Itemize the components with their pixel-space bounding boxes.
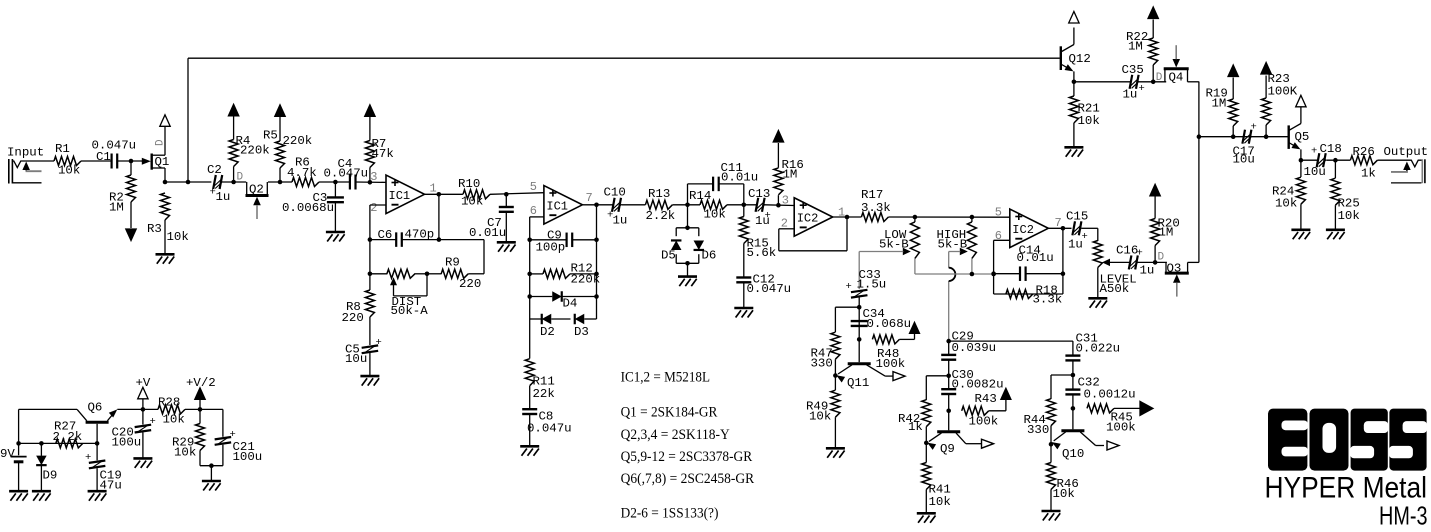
svg-text:0.01u: 0.01u <box>721 171 758 185</box>
svg-text:R13: R13 <box>648 187 670 201</box>
svg-text:D6: D6 <box>702 249 717 263</box>
svg-text:C13: C13 <box>748 187 770 201</box>
svg-text:R3: R3 <box>147 222 162 236</box>
svg-text:D: D <box>1158 252 1165 264</box>
svg-text:100k: 100k <box>1106 421 1136 435</box>
svg-text:0.0012u: 0.0012u <box>1084 388 1136 402</box>
svg-text:1: 1 <box>430 182 437 196</box>
svg-text:0.0082u: 0.0082u <box>952 378 1004 392</box>
svg-text:470p: 470p <box>405 228 435 242</box>
svg-text:+: + <box>846 281 852 293</box>
svg-text:R1: R1 <box>55 142 70 156</box>
svg-text:+: + <box>1251 122 1257 134</box>
svg-text:3.3k: 3.3k <box>861 201 891 215</box>
svg-text:1M: 1M <box>1159 226 1174 240</box>
svg-text:5.6k: 5.6k <box>747 246 777 260</box>
svg-text:R9: R9 <box>445 256 460 270</box>
svg-text:0.022u: 0.022u <box>1076 342 1121 356</box>
svg-text:50k-A: 50k-A <box>391 304 429 318</box>
svg-text:D4: D4 <box>563 297 578 311</box>
svg-text:5: 5 <box>530 180 537 194</box>
svg-text:R26: R26 <box>1353 145 1375 159</box>
svg-text:1u: 1u <box>613 214 628 228</box>
svg-text:1u: 1u <box>1123 88 1138 102</box>
svg-text:R5: R5 <box>263 129 278 143</box>
svg-text:D2-6 = 1SS133(?): D2-6 = 1SS133(?) <box>621 506 719 522</box>
svg-text:10u: 10u <box>1304 165 1326 179</box>
svg-text:+: + <box>1137 248 1143 260</box>
svg-text:Q6: Q6 <box>88 401 103 415</box>
svg-text:R17: R17 <box>861 188 883 202</box>
svg-text:220k: 220k <box>240 144 270 158</box>
svg-text:C2: C2 <box>207 163 222 177</box>
svg-text:10k: 10k <box>58 164 80 178</box>
svg-text:1k: 1k <box>1361 167 1376 181</box>
svg-text:HM-3: HM-3 <box>1379 502 1428 530</box>
svg-text:Q11: Q11 <box>847 376 869 390</box>
svg-text:1M: 1M <box>783 168 798 182</box>
svg-text:C10: C10 <box>604 186 626 200</box>
svg-text:Q4: Q4 <box>1169 71 1184 85</box>
svg-text:Q6(,7,8) = 2SC2458-GR: Q6(,7,8) = 2SC2458-GR <box>621 471 755 487</box>
svg-text:7: 7 <box>586 191 593 205</box>
svg-text:Q2,3,4 = 2SK118-Y: Q2,3,4 = 2SK118-Y <box>621 427 730 443</box>
svg-text:+: + <box>150 416 156 428</box>
svg-text:+V/2: +V/2 <box>186 376 216 390</box>
svg-text:100k: 100k <box>969 415 999 429</box>
svg-text:D2: D2 <box>540 325 555 339</box>
svg-text:10k: 10k <box>1053 487 1075 501</box>
svg-text:22k: 22k <box>533 387 555 401</box>
svg-text:2: 2 <box>370 201 377 215</box>
svg-text:IC2: IC2 <box>797 212 819 226</box>
svg-text:0.047u: 0.047u <box>92 139 137 153</box>
svg-text:1u: 1u <box>216 190 231 204</box>
svg-text:IC1,2 = M5218L: IC1,2 = M5218L <box>621 369 710 385</box>
svg-text:5: 5 <box>995 206 1002 220</box>
svg-text:D: D <box>1156 72 1163 84</box>
svg-text:100u: 100u <box>233 450 263 464</box>
svg-text:220: 220 <box>459 277 481 291</box>
svg-text:C16: C16 <box>1116 244 1138 258</box>
svg-text:+: + <box>376 337 382 349</box>
svg-text:D: D <box>237 172 244 184</box>
svg-text:1M: 1M <box>1128 40 1143 54</box>
svg-text:10k: 10k <box>809 410 831 424</box>
svg-text:Output: Output <box>1384 145 1429 159</box>
svg-text:R10: R10 <box>458 177 480 191</box>
svg-text:0.01u: 0.01u <box>469 226 506 240</box>
svg-text:0.047u: 0.047u <box>747 282 792 296</box>
svg-text:IC2: IC2 <box>1012 223 1034 237</box>
svg-text:2.2k: 2.2k <box>646 209 676 223</box>
svg-text:Q9: Q9 <box>940 442 955 456</box>
svg-text:0.047u: 0.047u <box>324 166 369 180</box>
svg-text:C35: C35 <box>1122 63 1144 77</box>
svg-text:Q10: Q10 <box>1062 447 1084 461</box>
svg-text:1u: 1u <box>1140 264 1155 278</box>
svg-text:220k: 220k <box>571 273 601 287</box>
svg-text:C15: C15 <box>1066 210 1088 224</box>
svg-text:100u: 100u <box>112 436 142 450</box>
svg-text:A50k: A50k <box>1100 282 1130 296</box>
svg-text:6: 6 <box>530 204 537 218</box>
svg-text:5k-B: 5k-B <box>938 238 968 252</box>
svg-text:330: 330 <box>811 357 833 371</box>
svg-text:220k: 220k <box>283 134 313 148</box>
svg-text:+: + <box>1139 83 1145 95</box>
svg-text:4.7k: 4.7k <box>287 166 317 180</box>
svg-text:IC1: IC1 <box>546 199 568 213</box>
svg-text:1u: 1u <box>1068 238 1083 252</box>
svg-text:Q5,9-12 = 2SC3378-GR: Q5,9-12 = 2SC3378-GR <box>621 449 753 465</box>
svg-text:C6: C6 <box>378 228 393 242</box>
svg-text:10k: 10k <box>1275 197 1297 211</box>
svg-text:0.068u: 0.068u <box>867 317 912 331</box>
svg-text:2.2k: 2.2k <box>53 430 83 444</box>
svg-text:D: D <box>155 139 167 146</box>
svg-text:330: 330 <box>1027 423 1049 437</box>
svg-text:220: 220 <box>342 311 364 325</box>
svg-text:R14: R14 <box>689 189 711 203</box>
svg-text:1M: 1M <box>109 201 124 215</box>
svg-text:R43: R43 <box>975 392 997 406</box>
svg-text:10k: 10k <box>461 195 483 209</box>
svg-text:0.039u: 0.039u <box>952 341 997 355</box>
svg-text:100K: 100K <box>1268 85 1298 99</box>
svg-text:10u: 10u <box>1233 152 1255 166</box>
svg-text:1u: 1u <box>755 214 770 228</box>
svg-text:+: + <box>85 452 91 464</box>
svg-text:D3: D3 <box>574 325 589 339</box>
svg-text:3: 3 <box>370 170 377 184</box>
svg-text:10k: 10k <box>929 495 951 509</box>
svg-text:1.5u: 1.5u <box>857 278 887 292</box>
svg-text:3: 3 <box>782 194 789 208</box>
svg-text:10u: 10u <box>345 352 367 366</box>
svg-text:0.0068u: 0.0068u <box>282 201 334 215</box>
svg-text:9V: 9V <box>0 447 15 461</box>
svg-text:Q5: Q5 <box>1295 130 1310 144</box>
svg-text:5k-B: 5k-B <box>879 238 909 252</box>
svg-text:10k: 10k <box>1078 114 1100 128</box>
svg-text:10k: 10k <box>704 208 726 222</box>
svg-text:+V: +V <box>136 376 151 390</box>
svg-text:1M: 1M <box>1212 97 1227 111</box>
svg-text:Q2: Q2 <box>249 183 264 197</box>
svg-text:C18: C18 <box>1320 142 1342 156</box>
svg-text:Q1 = 2SK184-GR: Q1 = 2SK184-GR <box>621 405 718 421</box>
svg-text:Input: Input <box>7 146 44 160</box>
svg-text:47k: 47k <box>372 147 394 161</box>
svg-text:Q12: Q12 <box>1069 52 1091 66</box>
svg-text:3.3k: 3.3k <box>1033 293 1063 307</box>
svg-text:D9: D9 <box>43 469 58 483</box>
svg-text:R28: R28 <box>158 396 180 410</box>
svg-text:HYPER Metal: HYPER Metal <box>1265 472 1428 505</box>
svg-text:0.047u: 0.047u <box>527 422 572 436</box>
svg-text:10k: 10k <box>174 446 196 460</box>
svg-text:100k: 100k <box>876 357 906 371</box>
svg-text:10k: 10k <box>167 230 189 244</box>
svg-text:D5: D5 <box>661 249 676 263</box>
svg-text:IC1: IC1 <box>389 189 411 203</box>
svg-text:+: + <box>1311 146 1317 158</box>
svg-text:100p: 100p <box>536 241 566 255</box>
svg-text:10k: 10k <box>163 413 185 427</box>
svg-text:0.01u: 0.01u <box>1017 251 1054 265</box>
svg-text:10k: 10k <box>1338 209 1360 223</box>
svg-text:Q3: Q3 <box>1167 262 1182 276</box>
svg-text:Q1: Q1 <box>155 155 170 169</box>
svg-text:1k: 1k <box>908 420 923 434</box>
